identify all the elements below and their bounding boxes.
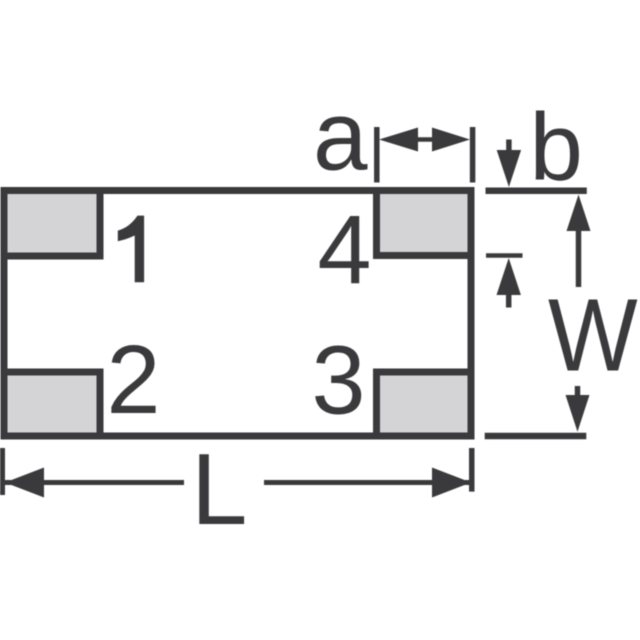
dimension W top arrow shaft [576, 229, 582, 287]
svg-text:4: 4 [318, 195, 372, 304]
dimension b top arrow shaft [506, 140, 512, 155]
dimension b top arrowhead [497, 150, 521, 187]
dimension L right arrowhead [432, 468, 471, 498]
dimension a right extension tick [470, 127, 476, 183]
dimension W bottom arrow shaft [575, 386, 581, 398]
svg-text:3: 3 [312, 326, 366, 435]
svg-text:W: W [548, 278, 638, 393]
dimension b bottom arrowhead [497, 258, 521, 295]
bottom edge extension line for W [485, 433, 587, 440]
pad 3 [377, 372, 472, 436]
top edge extension line for b and W [486, 188, 587, 195]
dimension a right arrowhead [432, 128, 470, 152]
dimension W top arrowhead [567, 195, 591, 232]
dimension L left extension tick [0, 448, 5, 495]
dimension W bottom arrowhead [566, 395, 590, 432]
pad 1 [4, 191, 100, 257]
pin label 1 [118, 216, 144, 283]
dimension a left arrowhead [379, 128, 418, 152]
component body outline [4, 191, 471, 437]
pad 4 [377, 191, 472, 256]
dimension L right extension tick [469, 448, 475, 492]
pad bottom extension line for b [486, 253, 523, 258]
pad 2 [4, 372, 100, 436]
dimension L line left segment [5, 480, 184, 485]
dimension L left arrowhead [5, 468, 44, 498]
svg-text:b: b [530, 94, 583, 201]
dimension a arrow line [414, 137, 436, 142]
svg-text:L: L [191, 432, 247, 546]
dimension L line right segment [264, 480, 469, 485]
svg-text:2: 2 [107, 325, 161, 434]
svg-text:a: a [313, 81, 368, 191]
dimension b bottom arrow shaft [506, 293, 512, 308]
dimension a left extension tick [374, 127, 380, 183]
